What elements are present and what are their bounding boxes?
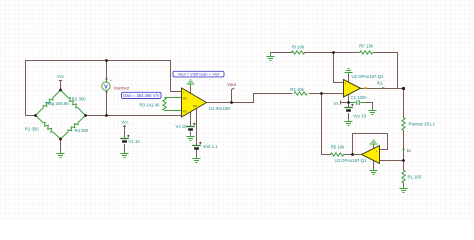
voltmeter Vsensor (102, 78, 113, 94)
ground above U1 flipped (187, 80, 195, 86)
ground V1 (121, 151, 129, 157)
wire U3 feedback (353, 134, 388, 155)
wire U1 output to R2 (207, 94, 293, 103)
resistor Rsense 251.1 (402, 118, 405, 131)
resistor RL 165 (402, 170, 405, 183)
ground Vref battery (193, 156, 201, 162)
svg-text:Ref: Ref (193, 104, 197, 108)
op-amp U2 OPAx197-Q1 (344, 80, 361, 98)
wire U2 top power stub (348, 75, 350, 82)
formula box gain (122, 92, 162, 98)
svg-text:Ib1: Ib1 (377, 81, 383, 86)
formula box vout (173, 71, 224, 77)
svg-text:Ri 10k: Ri 10k (292, 44, 305, 49)
resistor RF 10k (360, 51, 373, 54)
battery V1 10 (120, 135, 129, 142)
svg-text:R5 10k: R5 10k (331, 144, 345, 149)
capacitor C1 100n (349, 100, 367, 105)
svg-text:R2 10k: R2 10k (290, 87, 304, 92)
resistor R2 350 top-right arm (59, 89, 86, 117)
ground RL bottom (400, 186, 408, 192)
svg-text:Vcc: Vcc (121, 119, 129, 124)
wire Vout pin stub (232, 88, 235, 102)
ground Vs battery (187, 134, 195, 140)
wire vsensor branch (106, 61, 108, 116)
wire Rsense column top (403, 89, 405, 118)
svg-text:Gain = 354.465 V/V: Gain = 354.465 V/V (123, 93, 160, 98)
resistor Rbg top-left arm (34, 89, 61, 117)
wire bridge top Vcc stub (59, 81, 61, 91)
op-amp U1 INA188 (182, 88, 207, 118)
wire U1 Vref stub (196, 109, 198, 157)
ground bridge bottom (57, 151, 65, 157)
resistor R5 10k (331, 153, 344, 156)
svg-text:RL 165: RL 165 (408, 174, 422, 179)
wire U3 bottom power stub (373, 161, 375, 169)
wire Vs node (341, 101, 355, 104)
wire left vertical (26, 61, 36, 116)
svg-text:Io: Io (407, 148, 411, 153)
wire RL to ground (403, 183, 405, 186)
wire outer loop top (26, 60, 171, 62)
ground above U2 flipped (345, 69, 353, 75)
current arrow Io (402, 149, 405, 152)
resistor R2 10k (294, 92, 307, 95)
svg-text:Vref 1.1: Vref 1.1 (203, 144, 218, 149)
plus marks batteries (0, 0, 1, 1)
svg-text:Vs: Vs (333, 101, 338, 106)
wire Rsense to RL junction (403, 131, 405, 171)
svg-text:R3 141.46: R3 141.46 (140, 102, 160, 107)
battery Vref 1.1 (192, 142, 201, 149)
svg-text:-: - (376, 160, 377, 163)
svg-text:C1 100n: C1 100n (351, 95, 368, 100)
battery Vcc 10 (344, 104, 353, 111)
wire U1 Vs stub (190, 112, 192, 135)
ground Ri left (270, 53, 272, 55)
wire Ri branch (271, 52, 293, 54)
wire RF to corner and down (374, 53, 398, 89)
svg-text:RG: RG (183, 96, 187, 100)
svg-text:RF 10k: RF 10k (359, 44, 374, 49)
svg-text:RG: RG (183, 109, 187, 113)
wire junction down to U2 plus (334, 53, 344, 83)
bridge arms green (34, 89, 87, 141)
svg-text:U2 OPAx197-Q1: U2 OPAx197-Q1 (352, 74, 385, 79)
svg-text:Vcc 10: Vcc 10 (353, 114, 367, 119)
wire R2 to U2 input (310, 93, 344, 95)
wire U2 output (361, 88, 404, 90)
resistor R1 350 bottom-left arm (34, 114, 62, 140)
svg-text:Vout: Vout (227, 82, 236, 87)
svg-text:U1 INA188: U1 INA188 (209, 106, 231, 111)
wire lower bus bridge to U1 minus (86, 115, 182, 117)
svg-text:Vout = Vdiff Gain + Vref: Vout = Vdiff Gain + Vref (178, 72, 221, 77)
resistor R3 141.46 (RG) (163, 98, 182, 111)
wire V1 branch (123, 126, 125, 152)
resistor R4 350 bottom-right arm (59, 114, 87, 140)
wire Ri to junction (305, 52, 360, 54)
battery Vs 10 (186, 123, 195, 130)
svg-text:Vs 10: Vs 10 (176, 124, 188, 129)
wire C1 right to ground (362, 103, 373, 109)
wire to U1 plus input (171, 61, 182, 92)
svg-text:R2 350: R2 350 (72, 97, 86, 102)
resistor Ri 10k (292, 51, 305, 54)
svg-text:V: V (104, 84, 108, 90)
wire node B column (322, 94, 331, 155)
wire bridge bottom to ground (60, 139, 62, 152)
svg-text:-: - (183, 115, 184, 118)
svg-text:V1 10: V1 10 (129, 139, 141, 144)
svg-text:Vcc: Vcc (57, 74, 65, 79)
wire R5 to U3 (344, 154, 362, 156)
svg-text:Vsensor: Vsensor (114, 85, 130, 90)
wire Vcc10 bottom (348, 114, 350, 120)
svg-text:R1 350: R1 350 (25, 127, 39, 132)
svg-text:-: - (345, 94, 346, 97)
current arrow Ib1 (364, 87, 368, 89)
wire U1 top power stub (190, 86, 192, 94)
ground Vcc10 (345, 119, 353, 125)
svg-text:Rbg 349.96: Rbg 349.96 (46, 101, 69, 106)
wire U3 minus to column (380, 160, 404, 162)
wire U3 top power stub (373, 146, 375, 149)
svg-text:U3 OPAx197-Q1: U3 OPAx197-Q1 (335, 158, 368, 163)
ground C1 (369, 108, 377, 114)
ground above U3 flipped (370, 140, 378, 146)
ground U3 below (370, 168, 378, 174)
svg-text:R4 350: R4 350 (74, 128, 88, 133)
svg-text:Rsense 251.1: Rsense 251.1 (409, 121, 436, 126)
op-amp U3 OPAx197-Q1 (362, 146, 380, 164)
wire U2 bottom power stub (348, 95, 350, 107)
